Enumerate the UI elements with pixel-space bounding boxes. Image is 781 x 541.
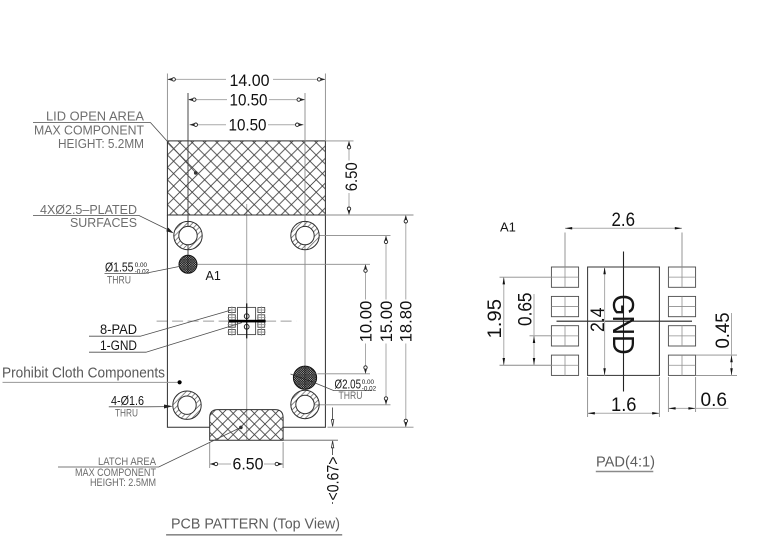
- extension line hatch bottom right (18.80 top / 6.50 bottom): [325, 214, 413, 216]
- pin A1 hole (filled): [179, 255, 197, 273]
- mini footprint : thick GND bar: [229, 320, 266, 323]
- body outline: [167, 215, 325, 427]
- svg-text:0.6: 0.6: [701, 390, 728, 411]
- mini footprint : central GND pad: [238, 307, 256, 334]
- note LID OPEN AREA: [34, 109, 144, 152]
- plated hole top-left: [174, 221, 202, 249]
- svg-text:A1: A1: [500, 220, 516, 235]
- detail horizontal centerline: [557, 320, 693, 322]
- label A1 (detail): [500, 220, 516, 235]
- svg-text:2.4: 2.4: [588, 307, 609, 332]
- note Prohibit Cloth Components: [2, 364, 182, 384]
- extension line latch bottom: [283, 439, 338, 441]
- svg-text:PAD(4:1): PAD(4:1): [596, 454, 655, 470]
- detail central GND pad: [588, 267, 660, 375]
- svg-text:-0.02: -0.02: [362, 386, 377, 393]
- svg-text:1.95: 1.95: [485, 299, 506, 339]
- svg-text:0.45: 0.45: [713, 313, 734, 349]
- dimension 2.4: [588, 267, 609, 375]
- svg-text:GND: GND: [606, 294, 641, 355]
- extension line body bottom (18.80 bottom): [328, 426, 414, 428]
- leader 4X plated surfaces: [33, 216, 174, 234]
- dimension 1.6: [588, 377, 660, 417]
- detail left pads: [551, 267, 578, 375]
- svg-text:THRU: THRU: [115, 407, 138, 419]
- svg-text:THRU: THRU: [107, 275, 131, 287]
- title PAD(4:1): [596, 454, 655, 471]
- svg-text:1-GND: 1-GND: [100, 338, 137, 353]
- svg-text:6.50: 6.50: [343, 162, 361, 191]
- dimension 10.50 lower: [190, 117, 304, 135]
- mini footprint : right pads: [257, 306, 266, 335]
- extension line A1 row (10.00 top): [198, 263, 371, 265]
- dimension <0.67> reference: [325, 408, 343, 505]
- svg-text:15.00: 15.00: [378, 301, 396, 343]
- label Ø1.55 with tolerance: [105, 260, 180, 286]
- dimension 6.50 (latch width): [210, 442, 283, 474]
- extension line pad GND row (10.00 bottom): [318, 373, 371, 375]
- svg-text:2.6: 2.6: [612, 210, 636, 231]
- svg-text:Prohibit Cloth Components: Prohibit Cloth Components: [2, 364, 165, 381]
- svg-text:1.6: 1.6: [611, 395, 637, 416]
- svg-text:8-PAD: 8-PAD: [100, 322, 137, 337]
- dimension 15.00: [378, 236, 396, 405]
- dimension 10.50 upper: [188, 91, 305, 109]
- plated hole bottom-right: [291, 390, 319, 418]
- svg-text:SURFACES: SURFACES: [70, 215, 137, 230]
- dimension 1.95: [485, 277, 551, 365]
- extension line hole row bottom (15.00 bottom): [310, 404, 391, 406]
- dimension 0.45: [696, 313, 737, 376]
- svg-text:-0.02: -0.02: [135, 268, 150, 275]
- svg-text:14.00: 14.00: [230, 72, 270, 90]
- svg-text:LID OPEN AREA: LID OPEN AREA: [46, 109, 144, 124]
- GND hole leader stub: [291, 374, 314, 382]
- svg-text:PCB PATTERN (Top View): PCB PATTERN (Top View): [171, 515, 340, 532]
- svg-text:<0.67>: <0.67>: [325, 457, 343, 501]
- title PCB PATTERN (Top View): [166, 515, 342, 534]
- svg-text:Ø1.55: Ø1.55: [105, 260, 134, 274]
- dimension 6.50 (lid height): [325, 141, 361, 215]
- vertical centerline: [246, 204, 248, 440]
- leader 8-PAD: [89, 310, 231, 337]
- label A1: [206, 269, 221, 283]
- svg-text:10.50: 10.50: [229, 117, 267, 135]
- horizontal dashed centerline: [157, 320, 297, 322]
- dimension 18.80: [398, 215, 416, 427]
- svg-text:6.50: 6.50: [233, 456, 264, 474]
- label 4-Ø1.6: [109, 394, 173, 420]
- svg-text:HEIGHT: 5.2MM: HEIGHT: 5.2MM: [58, 136, 144, 151]
- label Ø2.05 with tolerance: [314, 377, 377, 402]
- mini footprint : upper via circle: [244, 314, 249, 319]
- dimension 2.6: [565, 210, 682, 267]
- leader LATCH AREA: [58, 426, 243, 467]
- lid open hatched area: [167, 141, 325, 215]
- svg-text:0.65: 0.65: [515, 293, 536, 327]
- svg-text:10.00: 10.00: [358, 301, 376, 343]
- note 4X plated surfaces: [40, 202, 137, 230]
- leader LID OPEN AREA: [33, 123, 198, 175]
- svg-text:10.50: 10.50: [230, 91, 268, 109]
- dimension 10.00: [358, 264, 376, 374]
- latch hatched area: [210, 410, 283, 441]
- extension line 10.50 right column: [304, 93, 306, 388]
- GND text: [606, 294, 641, 355]
- mini footprint : dark vertical centerline: [246, 303, 248, 338]
- leader 1-GND: [89, 323, 242, 353]
- detail right pads: [668, 267, 695, 375]
- GND hole (filled): [293, 366, 316, 389]
- svg-text:18.80: 18.80: [398, 301, 416, 343]
- svg-text:4-Ø1.6: 4-Ø1.6: [111, 394, 144, 408]
- plated hole top-right: [291, 221, 319, 249]
- mini footprint : left pads: [228, 306, 237, 335]
- extension line 10.50 left column: [187, 93, 189, 273]
- extension line hole row top (15.00 top): [319, 235, 390, 237]
- dimension 14.00: [167, 72, 325, 141]
- mini footprint : lower via circle: [244, 324, 249, 329]
- svg-text:A1: A1: [206, 269, 221, 283]
- dimension 0.65: [515, 293, 551, 366]
- note LATCH AREA: [75, 456, 157, 489]
- plated hole bottom-left: [173, 391, 201, 419]
- dimension 0.6: [668, 377, 728, 412]
- svg-text:THRU: THRU: [339, 390, 363, 402]
- svg-text:HEIGHT: 2.5MM: HEIGHT: 2.5MM: [90, 477, 156, 489]
- detail vertical centerline: [623, 252, 625, 392]
